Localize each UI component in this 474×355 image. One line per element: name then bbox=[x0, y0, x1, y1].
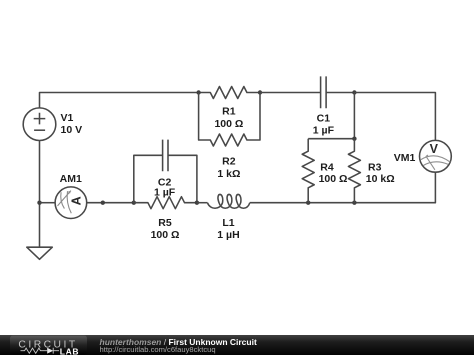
capacitor C2 plates bbox=[163, 140, 168, 172]
svg-text:V: V bbox=[430, 142, 439, 156]
svg-text:C1: C1 bbox=[317, 113, 331, 125]
wire: C1 right plate to C1/R3 junction bbox=[326, 92, 354, 94]
node: R4 bottom junction bbox=[306, 201, 310, 205]
svg-text:100 Ω: 100 Ω bbox=[319, 173, 348, 185]
svg-text:R5: R5 bbox=[158, 217, 172, 229]
svg-text:VM1: VM1 bbox=[394, 152, 416, 164]
resistor R4 bbox=[302, 139, 314, 203]
svg-text:10 V: 10 V bbox=[61, 124, 83, 136]
node: R3 top junction bbox=[352, 137, 356, 141]
voltmeter VM1 bbox=[420, 140, 452, 172]
wire: top junction down to R3 top bbox=[353, 93, 355, 139]
svg-text:10 kΩ: 10 kΩ bbox=[366, 173, 395, 185]
svg-text:100 Ω: 100 Ω bbox=[151, 229, 180, 241]
wire: AM1 right terminal to C2/R5 left node bbox=[87, 202, 134, 204]
resistor R3 bbox=[348, 139, 360, 203]
resistor R2 with connecting stubs bbox=[199, 93, 260, 147]
wire: L1 to bottom-right corner and up to VM1 bottom bbox=[250, 172, 436, 202]
node: AM1 output terminal bbox=[101, 201, 105, 205]
svg-text:1 µF: 1 µF bbox=[313, 125, 335, 137]
node: C2/R5 right junction bbox=[195, 201, 199, 205]
node: R1/R2 left junction bbox=[196, 90, 200, 94]
svg-text:R1: R1 bbox=[222, 106, 236, 118]
node: V1 / AM1 / ground junction bbox=[37, 201, 41, 205]
wire: junction to AM1 left terminal bbox=[40, 202, 56, 204]
wire: R5 node to L1 bbox=[197, 202, 208, 204]
node: C2/R5 left junction bbox=[132, 201, 136, 205]
ammeter AM1 bbox=[55, 187, 87, 219]
footer bar bbox=[0, 335, 474, 355]
svg-text:AM1: AM1 bbox=[60, 173, 82, 185]
svg-text:http://circuitlab.com/c6fauy8c: http://circuitlab.com/c6fauy8cktcuq bbox=[100, 345, 216, 354]
svg-text:R2: R2 bbox=[222, 156, 236, 168]
svg-text:1 kΩ: 1 kΩ bbox=[217, 168, 240, 180]
capacitor C2 right branch wire bbox=[168, 155, 197, 202]
node: R1/R2 right junction bbox=[258, 90, 262, 94]
svg-text:100 Ω: 100 Ω bbox=[214, 118, 243, 130]
resistor R5 bbox=[134, 197, 197, 209]
wire: V1 bottom down through junction to ground bbox=[39, 141, 41, 248]
inductor L1 bbox=[208, 194, 250, 208]
resistor R1 bbox=[199, 87, 260, 99]
svg-text:V1: V1 bbox=[61, 112, 74, 124]
svg-text:A: A bbox=[70, 196, 84, 205]
wire: R1 right node to C1 left plate bbox=[260, 92, 321, 94]
svg-text:1 µH: 1 µH bbox=[217, 229, 239, 241]
svg-text:R4: R4 bbox=[320, 162, 334, 174]
CircuitLab logo resistor-diode art bbox=[21, 348, 60, 354]
svg-text:L1: L1 bbox=[222, 217, 234, 229]
node: R3 bottom junction bbox=[352, 201, 356, 205]
svg-text:R3: R3 bbox=[368, 162, 382, 174]
wire: top junction right and down to VM1 top bbox=[354, 93, 435, 141]
wire: V1 top up and right to R1 left node bbox=[40, 93, 199, 108]
svg-text:LAB: LAB bbox=[60, 346, 79, 355]
footer logo plate bbox=[10, 336, 87, 355]
wire: R4/R3 top bar bbox=[308, 138, 354, 140]
svg-text:1 µF: 1 µF bbox=[154, 186, 176, 198]
voltage source V1 bbox=[23, 108, 56, 141]
capacitor C1 plates bbox=[321, 76, 327, 108]
capacitor C2 left branch wire bbox=[134, 155, 163, 202]
ground bbox=[27, 247, 53, 259]
node: C1 / R3 / VM1 top junction bbox=[352, 90, 356, 94]
